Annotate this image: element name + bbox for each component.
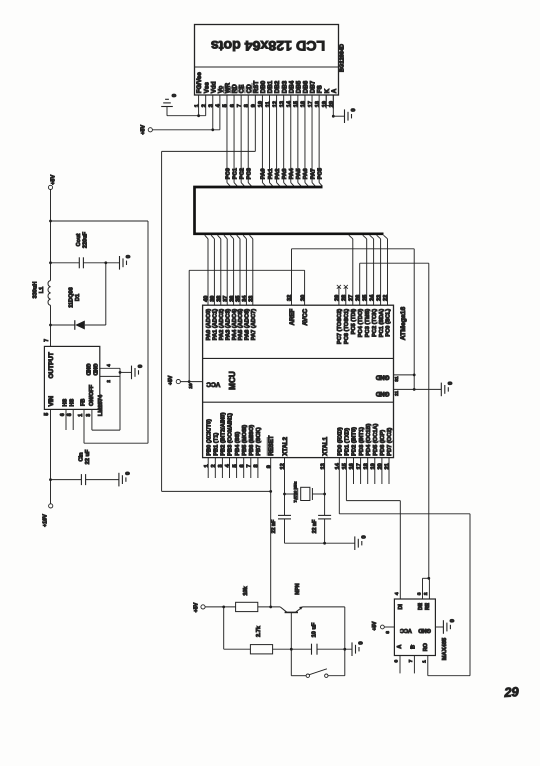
svg-text:+5V: +5V (168, 375, 174, 385)
transistor Q1 NPN (280, 583, 303, 649)
LM2574 HS stubs pins 6,8 (60, 409, 73, 430)
svg-text:PC0 (SCL): PC0 (SCL) (386, 309, 392, 337)
+5V terminal (reset) (193, 602, 205, 612)
svg-text:21: 21 (385, 463, 391, 469)
svg-text:PA4: PA4 (289, 168, 295, 180)
+10V input terminal (43, 504, 53, 527)
svg-text:20: 20 (329, 101, 335, 107)
svg-text:6: 6 (230, 104, 236, 107)
svg-text:+5V: +5V (193, 602, 199, 612)
svg-text:19: 19 (371, 463, 377, 469)
svg-text:29: 29 (335, 295, 341, 301)
svg-text:PC7 (TOSC2): PC7 (TOSC2) (337, 309, 343, 344)
svg-text:23: 23 (376, 295, 382, 301)
svg-text:GND: GND (375, 390, 389, 397)
capacitor Cin 22uF (51, 449, 119, 485)
svg-text:DB7: DB7 (310, 80, 317, 93)
svg-text:GND: GND (375, 374, 389, 381)
ground (LCD frame/Vss) (161, 94, 178, 116)
svg-text:10 uF: 10 uF (312, 622, 318, 637)
svg-text:330uH: 330uH (33, 282, 39, 299)
MCU U1 ATMega16 (203, 305, 407, 457)
svg-text:GND: GND (84, 364, 90, 376)
MAX485 DE/RE tie bracket (416, 578, 429, 599)
svg-text:PA3: PA3 (282, 168, 288, 180)
svg-text:VIN: VIN (48, 395, 55, 406)
svg-text:38: 38 (217, 296, 223, 302)
svg-text:PC1: PC1 (232, 167, 238, 179)
svg-text:25: 25 (362, 295, 368, 301)
wire AREF to ground loop (292, 249, 416, 391)
svg-text:PA1 (ADC1): PA1 (ADC1) (213, 309, 219, 341)
MCU top pin labels PC7-PC0 (337, 309, 392, 344)
svg-text:1: 1 (204, 464, 210, 467)
svg-text:22 uF: 22 uF (85, 449, 91, 464)
page number 29 (503, 684, 520, 700)
svg-text:K: K (324, 88, 331, 93)
svg-text:PC5: PC5 (317, 167, 323, 179)
wire XTAL2 (283, 458, 286, 516)
LCD pin name labels pins 1-20 (196, 72, 338, 94)
svg-text:OUTPUT: OUTPUT (48, 352, 55, 378)
svg-text:0: 0 (126, 255, 132, 258)
svg-text:0: 0 (450, 619, 456, 622)
svg-text:BG12864D: BG12864D (340, 44, 346, 72)
svg-text:PD7 (OC2): PD7 (OC2) (387, 428, 393, 456)
svg-text:A: A (331, 88, 338, 93)
inductor L1 330uH (33, 263, 52, 347)
svg-text:PC2 (TCK): PC2 (TCK) (372, 309, 378, 337)
svg-text:18: 18 (315, 101, 321, 107)
wire Vss/FG to ground (167, 109, 206, 118)
svg-text:Cin: Cin (78, 452, 84, 462)
svg-text:3: 3 (416, 592, 422, 595)
svg-text:L1: L1 (39, 287, 45, 294)
svg-text:16: 16 (349, 463, 355, 469)
svg-text:14: 14 (287, 100, 293, 107)
ground (crystal) (355, 535, 368, 550)
svg-text:RO: RO (423, 643, 429, 651)
svg-text:34: 34 (242, 295, 248, 302)
svg-text:1: 1 (78, 414, 84, 417)
svg-text:19: 19 (322, 101, 328, 107)
svg-text:PB1 (T1): PB1 (T1) (214, 433, 220, 456)
svg-text:18: 18 (363, 463, 369, 469)
svg-text:Vdd: Vdd (210, 81, 217, 93)
svg-text:8: 8 (67, 413, 73, 416)
wires bus to MCU PA0-PA7 (205, 235, 253, 305)
svg-text:PA0 (ADC0): PA0 (ADC0) (206, 309, 212, 341)
svg-text:2.7k: 2.7k (256, 625, 262, 637)
svg-text:PB4 (SS): PB4 (SS) (235, 432, 241, 456)
svg-text:22 nF: 22 nF (271, 520, 277, 534)
svg-text:PC1 (SDA): PC1 (SDA) (379, 309, 385, 338)
diode D1 11DQ06 (51, 261, 108, 329)
LCD module U3 BG12864D (195, 25, 346, 96)
svg-text:XTAL2: XTAL2 (282, 436, 289, 455)
svg-text:PA4 (ADC4): PA4 (ADC4) (232, 309, 238, 341)
capacitor 22nF (XTAL2) (271, 515, 291, 543)
svg-text:+5V: +5V (51, 175, 57, 185)
svg-text:6: 6 (60, 413, 66, 416)
svg-text:10: 10 (258, 101, 264, 107)
svg-text:6: 6 (239, 464, 245, 467)
svg-text:16: 16 (301, 101, 307, 107)
svg-text:14: 14 (335, 462, 341, 469)
MCU top pin labels PA0-PA7 (206, 308, 309, 340)
MAX485 pin numbers / stubs (394, 592, 428, 673)
resistor R1 10k (236, 585, 281, 611)
capacitor 22nF (XTAL1) (312, 515, 331, 543)
capacitor Cout 220uF (49, 231, 119, 268)
svg-text:15: 15 (342, 463, 348, 469)
svg-text:11: 11 (265, 101, 271, 107)
svg-text:PA5: PA5 (296, 168, 302, 180)
svg-text:+10V: +10V (43, 514, 49, 527)
MCU PB0-PB7 open stubs (208, 458, 258, 478)
LM2574 FB pin 1 to +5V rail (78, 409, 148, 443)
svg-text:PB3 (OC0/AIN1): PB3 (OC0/AIN1) (228, 413, 234, 456)
svg-text:0: 0 (126, 472, 132, 475)
svg-text:HS: HS (70, 398, 76, 406)
svg-text:2: 2 (211, 464, 217, 467)
svg-text:Cout: Cout (76, 234, 82, 247)
wire +5V to Vdd and Vo (152, 109, 219, 132)
svg-text:A: A (397, 645, 403, 649)
svg-text:1: 1 (422, 660, 428, 663)
svg-text:VCC: VCC (400, 627, 412, 633)
svg-text:22 nF: 22 nF (312, 520, 318, 534)
svg-text:GND: GND (91, 364, 97, 376)
wire crystal caps to ground (285, 542, 355, 545)
svg-text:PA6 (ADC6): PA6 (ADC6) (245, 309, 251, 341)
svg-text:FS: FS (317, 85, 324, 93)
MCU PC7/PC6 no-connect stubs (337, 285, 348, 305)
svg-text:0: 0 (351, 108, 357, 111)
svg-text:10: 10 (188, 383, 194, 389)
svg-text:AREF: AREF (289, 309, 296, 326)
svg-text:PD6 (ICP): PD6 (ICP) (380, 430, 386, 456)
svg-text:4: 4 (394, 592, 400, 595)
LCD pin stubs (199, 95, 334, 109)
svg-text:PA6: PA6 (303, 168, 309, 180)
svg-text:PC6 (TOSC1): PC6 (TOSC1) (344, 309, 350, 344)
svg-text:13: 13 (320, 463, 326, 469)
wire VIN pin 5 to +10V (44, 409, 52, 503)
svg-text:XTAL1: XTAL1 (322, 436, 329, 455)
svg-text:7.3728 MHz: 7.3728 MHz (292, 481, 297, 502)
svg-text:40: 40 (204, 296, 210, 302)
svg-text:39: 39 (210, 296, 216, 302)
ground (reset) (352, 641, 365, 656)
svg-text:LM2574: LM2574 (98, 394, 104, 416)
svg-text:22: 22 (383, 295, 389, 301)
wire AVCC to +5V (188, 270, 305, 383)
svg-text:GND: GND (418, 627, 430, 633)
svg-text:RESET: RESET (268, 435, 275, 456)
svg-text:32: 32 (287, 295, 293, 301)
svg-text:27: 27 (349, 295, 355, 301)
svg-text:PD0 (RXD): PD0 (RXD) (338, 427, 344, 456)
LCD pin numbers 1-20 (194, 100, 335, 107)
ground (MAX485) (435, 619, 456, 634)
svg-text:2: 2 (201, 104, 207, 107)
wire PD0 RXD to MAX485 RO (339, 458, 470, 676)
svg-text:ATMega16: ATMega16 (400, 307, 407, 341)
ground (Cout) (120, 255, 133, 270)
svg-text:VCC: VCC (206, 380, 220, 387)
svg-text:PB5 (MOSI): PB5 (MOSI) (242, 425, 248, 456)
MCU bottom pin numbers (204, 462, 391, 469)
MCU top pin numbers (204, 294, 390, 302)
svg-text:28: 28 (342, 295, 348, 301)
wire PC4 to MAX485 DE/RE (360, 263, 430, 579)
svg-text:7: 7 (237, 104, 243, 107)
MCU PD2-PD7 open stubs (354, 458, 390, 484)
svg-text:PD4 (OC1B): PD4 (OC1B) (366, 423, 372, 455)
svg-text:20: 20 (378, 463, 384, 469)
net labels PC0-PC3 PA0-PA7 PC5 (225, 167, 323, 179)
svg-text:PA2 (ADC2): PA2 (ADC2) (219, 309, 225, 341)
svg-text:PB6 (MISO): PB6 (MISO) (249, 425, 255, 456)
svg-text:PB0 (XCK/T0): PB0 (XCK/T0) (206, 419, 212, 456)
svg-text:0: 0 (172, 94, 178, 97)
svg-text:10k: 10k (243, 585, 249, 595)
svg-text:PC5 (TDI): PC5 (TDI) (351, 309, 357, 335)
svg-text:PA3 (ADC3): PA3 (ADC3) (225, 309, 231, 341)
wire PD1 TXD to MAX485 DI (346, 458, 400, 599)
svg-text:+5V: +5V (372, 621, 378, 631)
MCU GND pins 31,11 to ground (394, 375, 442, 396)
svg-text:5: 5 (232, 464, 238, 467)
svg-text:MAX485: MAX485 (442, 637, 448, 660)
svg-text:13: 13 (279, 101, 285, 107)
svg-text:PB7 (SCK): PB7 (SCK) (256, 427, 262, 456)
svg-text:+5V: +5V (140, 125, 146, 135)
svg-text:3: 3 (218, 464, 224, 467)
svg-text:15: 15 (294, 101, 300, 107)
svg-text:PA2: PA2 (275, 168, 281, 179)
svg-text:AVCC: AVCC (302, 308, 309, 325)
capacitor C5 10uF (312, 622, 353, 655)
svg-text:DB4: DB4 (288, 80, 295, 93)
svg-text:PA0: PA0 (261, 168, 267, 179)
crystal Y1 7.3728 MHz (285, 481, 325, 502)
svg-text:0: 0 (359, 641, 365, 644)
svg-text:12: 12 (272, 101, 278, 107)
svg-text:PA7: PA7 (310, 168, 316, 179)
wires bus to MCU PC5,PC3,PC2,PC1,PC0 (349, 235, 388, 305)
svg-text:PC2: PC2 (239, 168, 245, 179)
svg-text:5: 5 (44, 413, 50, 416)
wires LCD control/data lines to bus (227, 109, 322, 187)
svg-text:2: 2 (423, 592, 429, 595)
+5V terminal (LCD Vdd) (140, 125, 152, 135)
svg-text:7: 7 (247, 464, 253, 467)
svg-text:31: 31 (394, 376, 399, 382)
wire LCD backlight K,A to ground (326, 95, 344, 118)
svg-text:17: 17 (308, 101, 314, 107)
MCU VCC pin 10 with +5V terminal (168, 375, 203, 389)
svg-text:17: 17 (356, 463, 362, 469)
ground (LM2574) (132, 365, 145, 380)
svg-text:220uF: 220uF (83, 231, 89, 248)
svg-text:PD2 (INT0): PD2 (INT0) (352, 427, 358, 456)
svg-text:DI: DI (398, 604, 404, 610)
svg-text:8: 8 (244, 104, 250, 107)
wire transistor emitter loop (302, 607, 344, 676)
svg-text:PA1: PA1 (268, 168, 274, 180)
svg-text:PA7 (ADC7): PA7 (ADC7) (251, 309, 257, 341)
svg-text:12: 12 (280, 463, 286, 469)
svg-text:26: 26 (355, 295, 361, 301)
wire LCD RST to reset net (left vertical) (162, 109, 273, 493)
svg-text:0: 0 (362, 535, 368, 538)
svg-text:0: 0 (138, 365, 144, 368)
switch SW1 reset (291, 649, 345, 677)
svg-text:PD5 (OC1A): PD5 (OC1A) (373, 423, 379, 455)
svg-text:FG/Vee: FG/Vee (196, 72, 203, 94)
svg-text:36: 36 (229, 296, 235, 302)
svg-text:FB: FB (80, 399, 86, 406)
svg-text:PC4 (TDO): PC4 (TDO) (358, 309, 364, 338)
svg-text:9: 9 (251, 104, 257, 107)
svg-text:3: 3 (86, 414, 92, 417)
svg-text:PC3 (TMS): PC3 (TMS) (365, 309, 371, 338)
ground (LCD backlight) (345, 108, 358, 123)
MCU bottom pin labels (206, 412, 393, 455)
LM2574 ON/OFF pin 3 tie to gnd (86, 409, 120, 430)
svg-text:0: 0 (448, 382, 454, 385)
svg-text:DB5: DB5 (295, 80, 302, 93)
svg-text:30: 30 (300, 295, 306, 301)
+5V terminal (MAX485 VCC pin 8) (372, 621, 394, 634)
svg-text:33: 33 (249, 296, 255, 302)
svg-text:29: 29 (503, 684, 520, 700)
svg-text:DB0: DB0 (260, 80, 267, 93)
svg-text:MCU: MCU (228, 371, 237, 390)
svg-text:PD1 (TXD): PD1 (TXD) (345, 428, 351, 456)
svg-text:DB1: DB1 (267, 80, 274, 93)
svg-text:11: 11 (394, 391, 399, 396)
MAX485 U2 (394, 599, 447, 660)
+5V output terminal (48, 175, 56, 190)
svg-text:Vss: Vss (203, 82, 210, 94)
wire MCU RESET to transistor (270, 458, 272, 607)
svg-text:7: 7 (44, 339, 50, 342)
svg-text:PA5 (ADC5): PA5 (ADC5) (238, 309, 244, 341)
svg-text:DB2: DB2 (274, 80, 281, 93)
ground (Cin) (119, 472, 132, 487)
svg-text:LCD 128x64 dots: LCD 128x64 dots (211, 37, 325, 53)
svg-text:DB6: DB6 (303, 80, 310, 93)
svg-text:11DQ06: 11DQ06 (69, 287, 75, 308)
svg-text:6: 6 (394, 660, 400, 663)
svg-text:D1: D1 (75, 294, 81, 301)
svg-text:ON/OFF: ON/OFF (89, 384, 95, 406)
svg-text:HS: HS (63, 398, 69, 406)
svg-text:DB3: DB3 (281, 80, 288, 93)
wire +5V rail (49, 190, 148, 444)
svg-text:9: 9 (266, 465, 272, 468)
ground (MCU) (441, 382, 454, 397)
svg-text:1: 1 (194, 104, 200, 107)
svg-text:24: 24 (369, 294, 375, 301)
wire reset base rail (205, 606, 236, 609)
svg-text:PC3: PC3 (247, 167, 253, 179)
svg-text:3: 3 (209, 104, 215, 107)
resistor R2 2.7k (224, 607, 312, 654)
svg-text:5: 5 (223, 104, 229, 107)
svg-text:PD3 (INT1): PD3 (INT1) (359, 427, 365, 456)
svg-text:PB2 (INT2/AIN0): PB2 (INT2/AIN0) (221, 412, 227, 455)
regulator U4 LM2574 (44, 339, 104, 416)
bus (thick) LCD to MCU (195, 187, 384, 234)
svg-text:PC0: PC0 (225, 168, 231, 179)
svg-text:NPN: NPN (295, 583, 301, 594)
svg-text:37: 37 (223, 296, 229, 302)
svg-text:8: 8 (254, 464, 260, 467)
LM2574 GND pins to ground (100, 364, 132, 431)
svg-text:RST: RST (253, 81, 260, 94)
wire XTAL1 (323, 458, 326, 516)
svg-text:7: 7 (408, 659, 414, 662)
svg-text:35: 35 (236, 296, 242, 302)
